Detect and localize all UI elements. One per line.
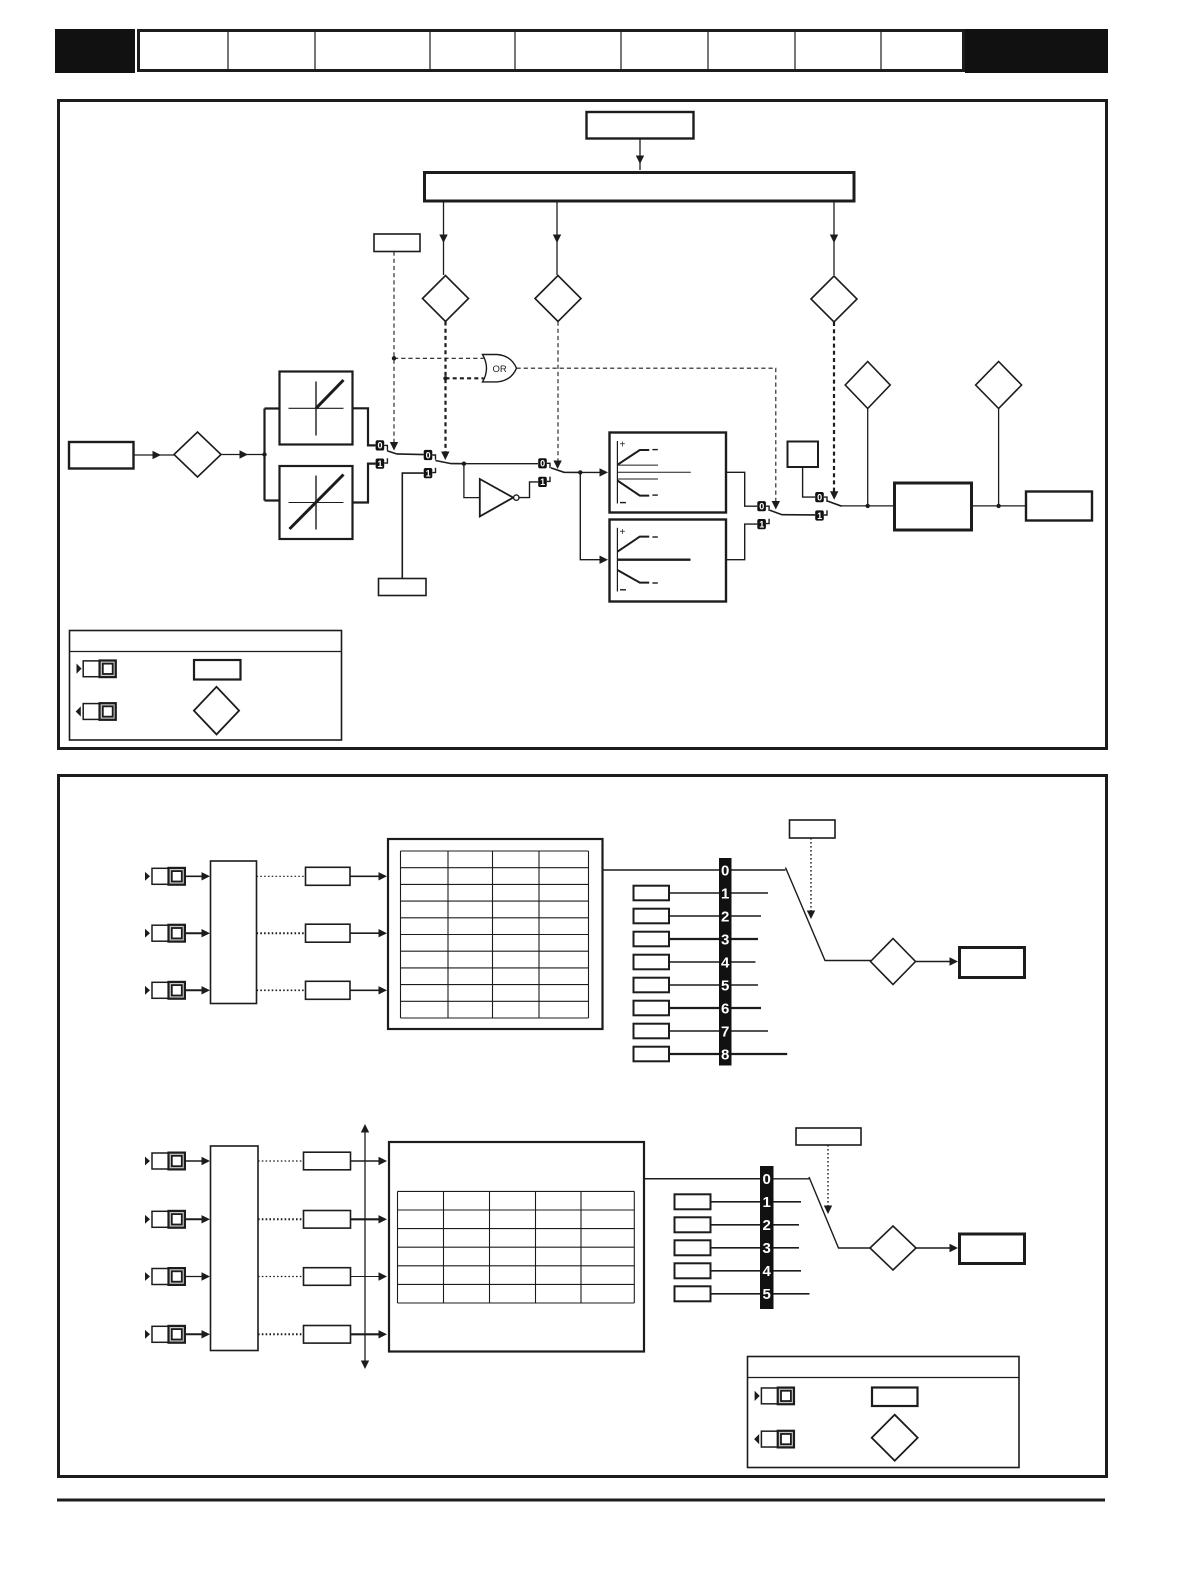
wire bipolar block to switch S1-1 <box>353 464 376 503</box>
wire lower table output to selector bar <box>644 1178 760 1180</box>
lower selector bar digits <box>763 1171 772 1303</box>
wire upper tap 2 through bar <box>669 915 761 917</box>
diagram 2 outer frame <box>59 776 1107 1477</box>
parameter diamond P3 <box>811 276 857 322</box>
arrowhead P3 control <box>830 491 838 500</box>
lower tap parameter box 2 <box>675 1217 711 1232</box>
dotted select line 2 upper <box>257 932 306 934</box>
wire scaling block to output box <box>972 505 1027 507</box>
scaling block <box>895 483 972 530</box>
svg-text:3: 3 <box>721 931 729 948</box>
lower scale parameter box 3 <box>304 1268 351 1286</box>
legend box 1 <box>70 631 342 741</box>
dotted select line 1 upper <box>257 875 306 877</box>
lower output diamond <box>870 1226 916 1270</box>
wire diamond P6 down to output wire <box>998 409 1000 506</box>
junction with P6 parameter line <box>996 504 1000 508</box>
wire S4 to S5-1 <box>0 0 1 1</box>
lower source terminal 2 <box>145 1211 185 1228</box>
bracket to clamp blocks <box>265 409 280 501</box>
svg-text:8: 8 <box>721 1046 729 1063</box>
upper scale parameter box 2 <box>306 924 351 942</box>
switch S3 contact 0 <box>538 458 550 468</box>
wire destination box to S5-0 <box>803 467 816 497</box>
wire lower diamond to output box <box>916 1244 958 1252</box>
wire junction to switch S3 <box>464 463 538 465</box>
wire lower scale box 4 to table <box>351 1330 388 1338</box>
lower tap parameter box 4 <box>675 1263 711 1278</box>
wire upper tap 1 through bar <box>669 892 768 894</box>
wire upper tap 5 through bar <box>669 984 758 986</box>
bottom rule <box>57 1499 1105 1502</box>
svg-text:5: 5 <box>763 1286 771 1303</box>
junction after S3 <box>578 470 582 474</box>
arrowhead on input wire <box>153 451 162 459</box>
switch S1 lever <box>387 451 397 454</box>
wire upper tap 8 through bar <box>669 1053 787 1055</box>
lower mux lever <box>774 1177 871 1248</box>
arrowhead into block B <box>600 556 609 564</box>
upper tap parameter box 6 <box>634 1001 670 1016</box>
legend 2 read-write box <box>872 1388 918 1407</box>
wire lower source terminal 4 to selector <box>185 1330 210 1338</box>
header left black block <box>55 29 135 73</box>
wire lower source terminal 2 to selector <box>185 1215 210 1223</box>
svg-text:0: 0 <box>759 502 764 512</box>
sample-hold parameter box <box>379 579 427 596</box>
dotted select line to upper mux <box>810 838 812 912</box>
svg-text:1: 1 <box>721 885 729 902</box>
upper selector block <box>211 861 257 1004</box>
upper output box <box>960 948 1025 978</box>
switch S2 lever <box>435 461 464 464</box>
upper tap parameter box 7 <box>634 1024 670 1039</box>
wire diamond P2r down to output wire <box>867 409 869 506</box>
legend box 2 <box>748 1357 1020 1468</box>
switch S4 contact 1 <box>757 519 769 530</box>
legend 1 output arrow <box>76 706 81 716</box>
lower tap parameter box 5 <box>675 1286 711 1301</box>
output box <box>1026 492 1092 521</box>
upper scale parameter box 1 <box>306 867 351 885</box>
OR gate output dashed wire <box>517 368 776 503</box>
lower mux select parameter box <box>796 1128 861 1145</box>
wire lower tap 3 through bar <box>711 1247 800 1249</box>
svg-text:1: 1 <box>763 1194 771 1211</box>
parameter diamond P6 <box>976 362 1022 409</box>
svg-text:7: 7 <box>721 1023 729 1040</box>
parameter diamond P4 <box>174 432 221 477</box>
upper lookup table grid <box>401 851 589 1018</box>
wire upper diamond to output box <box>916 957 959 965</box>
upper selector bar digits <box>721 862 730 1063</box>
svg-text:3: 3 <box>763 1240 771 1257</box>
parameter diamond P2 <box>535 276 581 322</box>
wire upper scale box 2 to table <box>350 929 387 937</box>
svg-text:0: 0 <box>426 450 431 460</box>
upper source terminal 1 <box>145 868 185 885</box>
wire lower scale box 2 to table <box>351 1215 388 1223</box>
inverter gate U2 <box>480 479 519 516</box>
arrowhead on middle drop <box>553 235 561 244</box>
upper tap parameter box 3 <box>634 932 670 947</box>
wire S2-1 to sample box <box>402 473 423 578</box>
legend 1 read-only diamond <box>194 687 239 735</box>
wire lower scale box 1 to table <box>351 1157 388 1165</box>
dotted select line 3 upper <box>257 989 306 991</box>
parameter diamond P5 <box>845 362 890 409</box>
arrowhead P2 control <box>553 461 561 470</box>
upper tap parameter box 8 <box>634 1047 670 1062</box>
wire lower source terminal 3 to selector <box>185 1272 210 1280</box>
switch S5 contact 1 <box>815 510 827 521</box>
threshold characteristic block A <box>610 433 727 513</box>
switch S3 lever <box>551 468 580 473</box>
bar drop wire left <box>443 202 445 276</box>
wire junction down to inverter <box>464 464 479 498</box>
wire upper scale box 1 to table <box>350 872 387 880</box>
dotted select line 2 lower <box>258 1218 303 1220</box>
wire block A output to S4-0 <box>726 472 757 506</box>
junction on mode control line <box>392 356 396 360</box>
header table frame <box>139 31 964 71</box>
upper scale parameter box 3 <box>306 981 351 999</box>
legend 1 input arrow <box>77 664 82 674</box>
junction on P1 control line <box>443 376 447 380</box>
wire upper tap 7 through bar <box>669 1030 768 1032</box>
arrowhead into block A <box>600 468 609 476</box>
dashed control line from P2 <box>557 322 559 463</box>
upper mux select parameter box <box>790 820 836 838</box>
legend 2 output terminal symbol <box>761 1431 794 1448</box>
wire lower source terminal 1 to selector <box>185 1157 210 1165</box>
bipolar clamp block <box>280 466 353 539</box>
svg-text:1: 1 <box>426 468 431 478</box>
dotted select line 3 lower <box>258 1276 303 1278</box>
arrowhead into bar <box>636 156 644 165</box>
wire lower tap 2 through bar <box>711 1224 800 1226</box>
upper tap parameter box 2 <box>634 909 670 924</box>
lower source terminal 1 <box>145 1153 185 1170</box>
svg-text:OR: OR <box>493 364 507 375</box>
lower lookup table grid <box>398 1191 635 1303</box>
bar drop wire middle <box>556 202 558 276</box>
junction with P2 parameter line <box>866 504 870 508</box>
legend 1 input terminal symbol <box>83 660 116 677</box>
diagram 1 outer frame <box>59 101 1107 749</box>
wire inverter to S3-1 <box>519 482 538 498</box>
svg-text:1: 1 <box>377 459 382 469</box>
wire from top parameter box to bar <box>639 139 641 171</box>
svg-text:4: 4 <box>721 954 730 971</box>
wire upper scale box 3 to table <box>350 986 387 994</box>
arrowhead P1 control <box>441 452 449 461</box>
svg-text:0: 0 <box>817 492 822 502</box>
wire upper source terminal 1 to selector <box>185 872 210 880</box>
arrowhead upper mux select <box>807 911 815 920</box>
upper mux lever <box>732 868 872 961</box>
wire lower tap 4 through bar <box>711 1270 802 1272</box>
threshold characteristic block B <box>610 520 727 602</box>
wire upper source terminal 2 to selector <box>185 929 210 937</box>
svg-text:2: 2 <box>763 1217 771 1234</box>
top parameter box <box>587 112 694 139</box>
bar drop wire right <box>833 202 835 276</box>
heavy dashed control line from P3 <box>833 322 835 494</box>
svg-text:4: 4 <box>763 1263 772 1280</box>
switch S4 contact 0 <box>757 501 769 511</box>
upper output diamond <box>871 939 916 985</box>
switch S1 contact 1 <box>376 458 388 469</box>
arrowhead after P4 <box>240 450 249 458</box>
svg-text:6: 6 <box>721 1000 729 1017</box>
wire S3 to threshold block A <box>580 471 606 473</box>
svg-text:0: 0 <box>763 1171 771 1188</box>
upper tap parameter box 5 <box>634 978 670 993</box>
svg-text:2: 2 <box>721 908 729 925</box>
mode parameter box <box>374 234 420 252</box>
svg-text:0: 0 <box>721 862 729 879</box>
legend 1 read-write box <box>194 660 241 680</box>
svg-text:1: 1 <box>540 477 545 487</box>
legend 2 input terminal symbol <box>761 1388 794 1405</box>
svg-text:0: 0 <box>540 459 545 469</box>
wire lower tap 1 through bar <box>711 1201 802 1203</box>
arrowhead mode control <box>390 442 398 451</box>
switch S5 contact 0 <box>815 492 827 502</box>
arrowhead OR output <box>772 501 780 510</box>
wire unipolar block to switch S1-0 <box>353 408 376 445</box>
lower tap parameter box 3 <box>675 1240 711 1255</box>
wire lower tap 5 through bar <box>711 1293 810 1295</box>
wire S3 down to threshold block B <box>580 472 600 559</box>
input source box <box>69 442 134 469</box>
wire S5 to scaling block <box>842 505 893 507</box>
svg-text:+: + <box>620 440 626 451</box>
svg-text:5: 5 <box>721 977 729 994</box>
wire upper tap 3 through bar <box>669 938 758 940</box>
dotted select line to lower mux <box>827 1145 829 1207</box>
upper tap parameter box 4 <box>634 955 670 970</box>
legend 1 output terminal symbol <box>83 703 116 720</box>
dashed control line from mode box <box>393 252 395 445</box>
switch S1 contact 0 <box>376 440 388 450</box>
legend 2 input arrow <box>755 1391 760 1401</box>
wire upper tap 6 through bar <box>669 1007 761 1009</box>
horizontal bar box <box>425 173 855 202</box>
wire table output to selector bar <box>603 869 720 871</box>
legend 2 header rule <box>748 1377 1020 1379</box>
lower lookup table block <box>389 1142 644 1352</box>
heavy dashed control line from P1 <box>444 322 446 454</box>
header right black block <box>965 29 1108 73</box>
junction node at clamp bracket <box>262 452 266 456</box>
header table cell dividers <box>228 31 881 71</box>
lower selector block <box>211 1146 259 1351</box>
switch S2 contact 0 <box>424 450 436 460</box>
switch S2 contact 1 <box>424 468 436 479</box>
arrowhead on right drop <box>830 235 838 244</box>
upper source terminal 2 <box>145 925 185 942</box>
destination parameter box <box>788 442 819 468</box>
svg-text:1: 1 <box>817 511 822 521</box>
wire lower scale box 3 to table <box>351 1272 388 1280</box>
axis line with double arrows <box>361 1124 369 1369</box>
svg-text:+: + <box>620 527 626 538</box>
lower source terminal 3 <box>145 1268 185 1285</box>
arrowhead lower mux select <box>824 1206 832 1215</box>
upper source terminal 3 <box>145 982 185 999</box>
lower scale parameter box 1 <box>304 1152 351 1170</box>
upper lookup table block <box>388 839 603 1029</box>
OR gate U1 <box>483 355 517 382</box>
unipolar clamp block <box>280 372 353 445</box>
lower selector bar <box>760 1166 774 1309</box>
lower source terminal 4 <box>145 1326 185 1343</box>
OR gate input wire A <box>394 357 484 359</box>
legend 2 read-only diamond <box>872 1415 918 1461</box>
dotted select line 4 lower <box>258 1333 303 1335</box>
wire upper tap 4 through bar <box>669 961 756 963</box>
wire block B output to S4-1 <box>726 524 757 560</box>
parameter diamond P1 <box>423 276 469 322</box>
lower scale parameter box 4 <box>304 1326 351 1344</box>
wire S1 to S2 <box>397 453 424 456</box>
upper tap parameter box 1 <box>634 886 670 901</box>
OR gate input wire B <box>446 377 484 379</box>
svg-text:0: 0 <box>377 441 382 451</box>
junction after S2 <box>462 462 466 466</box>
wire input box to diamond P4 <box>134 454 175 456</box>
switch S4 lever <box>770 510 815 515</box>
lower scale parameter box 2 <box>304 1211 351 1229</box>
switch S5 lever <box>827 501 843 506</box>
upper selector bar <box>719 858 732 1066</box>
legend 2 output arrow <box>754 1434 759 1444</box>
dotted select line 1 lower <box>258 1160 303 1162</box>
svg-text:1: 1 <box>759 519 764 529</box>
arrowhead on left drop <box>439 235 447 244</box>
wire upper source terminal 3 to selector <box>185 986 210 994</box>
wire P4 to bracket junction <box>221 454 265 456</box>
lower tap parameter box 1 <box>675 1194 711 1209</box>
legend 1 header rule <box>70 651 342 653</box>
lower output box <box>960 1234 1025 1264</box>
switch S3 contact 1 <box>538 477 550 488</box>
